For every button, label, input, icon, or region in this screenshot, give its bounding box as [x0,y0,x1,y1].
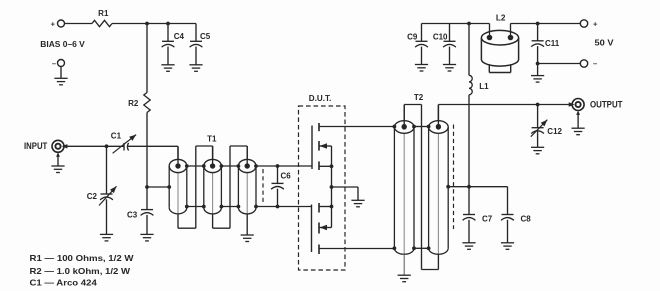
svg-text:OUTPUT: OUTPUT [590,100,623,110]
svg-text:INPUT: INPUT [24,141,48,151]
svg-text:L1: L1 [479,82,489,91]
svg-text:C2: C2 [87,192,98,201]
svg-text:–: – [52,59,56,68]
svg-text:C11: C11 [545,39,560,48]
svg-text:C3: C3 [127,210,138,219]
svg-text:+: + [51,20,56,29]
svg-text:C8: C8 [521,215,532,224]
svg-text:C7: C7 [482,215,493,224]
svg-text:C12: C12 [547,127,562,136]
svg-text:C5: C5 [200,32,211,41]
svg-text:50 V: 50 V [595,39,615,48]
svg-text:C4: C4 [174,32,185,41]
svg-text:+: + [593,20,598,29]
svg-text:R1 — 100 Ohms, 1/2 W: R1 — 100 Ohms, 1/2 W [30,253,134,263]
svg-text:T1: T1 [207,135,217,144]
svg-text:C1: C1 [111,131,122,140]
svg-text:C9: C9 [407,33,418,42]
svg-text:T2: T2 [414,93,424,102]
svg-text:C6: C6 [281,172,292,181]
svg-text:BIAS 0–6 V: BIAS 0–6 V [40,40,85,49]
svg-text:L2: L2 [496,13,506,22]
svg-text:–: – [593,59,597,68]
svg-text:R1: R1 [98,9,109,18]
svg-text:R2 — 1.0 kOhm, 1/2 W: R2 — 1.0 kOhm, 1/2 W [30,266,131,276]
svg-text:C1 — Arco 424: C1 — Arco 424 [30,278,98,288]
svg-text:D.U.T.: D.U.T. [309,94,332,103]
svg-text:R2: R2 [128,99,139,108]
svg-text:C10: C10 [433,33,448,42]
